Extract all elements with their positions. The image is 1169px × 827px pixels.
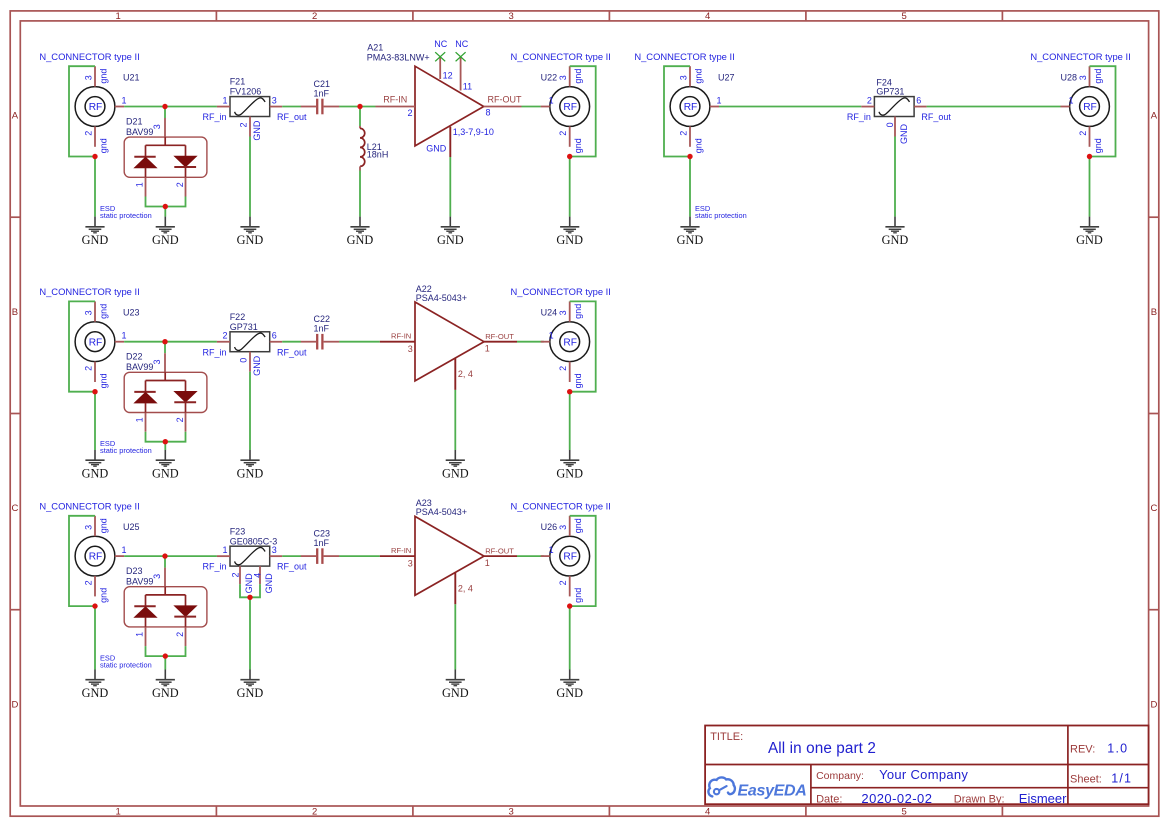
svg-text:PSA4-5043+: PSA4-5043+ xyxy=(416,293,467,303)
junction xyxy=(357,104,362,109)
frame row letters right xyxy=(1150,111,1157,711)
svg-text:U23: U23 xyxy=(123,308,140,318)
capacitor C23 1nF xyxy=(301,529,340,564)
svg-text:gnd: gnd xyxy=(98,138,108,153)
svg-text:RF-OUT: RF-OUT xyxy=(485,332,514,341)
svg-text:2: 2 xyxy=(222,331,227,341)
wire bus to L21 xyxy=(359,107,361,127)
junction xyxy=(247,595,252,600)
svg-text:1.0: 1.0 xyxy=(1107,741,1128,755)
svg-text:GND: GND xyxy=(237,233,264,247)
svg-text:RF: RF xyxy=(89,102,103,113)
svg-text:1: 1 xyxy=(135,182,145,187)
filter F22 GP731 xyxy=(202,312,307,376)
capacitor C22 1nF xyxy=(301,314,340,349)
wire U21 to F21 xyxy=(124,106,217,108)
svg-text:D: D xyxy=(1150,699,1157,710)
svg-text:FV1206: FV1206 xyxy=(230,87,262,97)
svg-text:N_CONNECTOR type II: N_CONNECTOR type II xyxy=(1030,51,1130,62)
svg-text:Your Company: Your Company xyxy=(879,767,968,782)
svg-text:RF: RF xyxy=(563,337,577,348)
svg-text:GND: GND xyxy=(152,233,179,247)
svg-text:RF: RF xyxy=(89,552,103,563)
svg-text:PMA3-83LNW+: PMA3-83LNW+ xyxy=(367,53,430,63)
svg-text:2: 2 xyxy=(867,95,872,105)
diode D23 BAV99 xyxy=(124,566,207,646)
svg-text:RF_out: RF_out xyxy=(921,112,951,122)
svg-text:RF-OUT: RF-OUT xyxy=(488,94,522,104)
svg-text:4: 4 xyxy=(253,573,263,578)
wire gnd wrap of U27 xyxy=(664,66,690,156)
connector U22 N_CONNECTOR xyxy=(511,51,611,153)
svg-text:1: 1 xyxy=(116,807,121,818)
svg-text:N_CONNECTOR type II: N_CONNECTOR type II xyxy=(511,51,611,62)
wire A23 gnd pin to ground xyxy=(454,604,456,669)
filter F21 FV1206 xyxy=(202,77,307,141)
svg-text:A21: A21 xyxy=(367,42,383,52)
svg-text:1nF: 1nF xyxy=(314,88,330,98)
svg-text:GND: GND xyxy=(437,233,464,247)
svg-text:8: 8 xyxy=(486,108,491,118)
wire L21 to ground xyxy=(359,171,361,217)
wire F21 to C21 xyxy=(282,106,301,108)
svg-text:3: 3 xyxy=(678,75,688,80)
svg-text:D: D xyxy=(11,699,18,710)
amplifier A23 PSA4-5043+ xyxy=(380,498,517,604)
svg-text:N_CONNECTOR type II: N_CONNECTOR type II xyxy=(39,501,139,512)
svg-text:2, 4: 2, 4 xyxy=(458,584,473,594)
svg-text:3: 3 xyxy=(152,124,162,129)
svg-text:1: 1 xyxy=(122,545,127,555)
svg-text:gnd: gnd xyxy=(573,138,583,153)
ground xyxy=(556,450,583,481)
wire gnd wrap of U22 xyxy=(570,66,596,156)
svg-text:U26: U26 xyxy=(541,522,558,532)
svg-text:gnd: gnd xyxy=(1093,69,1103,84)
svg-text:gnd: gnd xyxy=(98,373,108,388)
svg-text:2: 2 xyxy=(312,807,317,818)
ground xyxy=(82,450,109,481)
connector U23 N_CONNECTOR xyxy=(39,286,139,388)
svg-text:NC: NC xyxy=(455,39,468,49)
frame column numbers bottom xyxy=(116,807,907,818)
wire F22 pin 0 to ground xyxy=(249,372,251,450)
ground xyxy=(82,670,109,701)
wire U26 pin2 to ground xyxy=(569,606,571,669)
svg-text:RF_in: RF_in xyxy=(847,112,871,122)
svg-text:1/1: 1/1 xyxy=(1111,772,1132,786)
wire joining D22 pins 1,2 to ground xyxy=(146,432,186,442)
svg-text:GP731: GP731 xyxy=(230,322,258,332)
svg-text:1: 1 xyxy=(116,11,121,22)
svg-text:0: 0 xyxy=(238,358,248,363)
ground xyxy=(677,217,704,248)
svg-text:N_CONNECTOR type II: N_CONNECTOR type II xyxy=(634,51,734,62)
svg-text:RF: RF xyxy=(684,102,698,113)
svg-text:2: 2 xyxy=(558,366,568,371)
svg-text:RF-OUT: RF-OUT xyxy=(485,546,514,555)
svg-text:gnd: gnd xyxy=(693,138,703,153)
svg-text:RF-IN: RF-IN xyxy=(383,94,407,104)
wire C21 to A21 xyxy=(339,106,375,108)
filter F23 GE0805C-3 xyxy=(202,526,307,593)
svg-text:TITLE:: TITLE: xyxy=(710,731,743,743)
net label ESD static protection xyxy=(100,439,152,455)
svg-text:BAV99: BAV99 xyxy=(126,127,153,137)
svg-text:GND: GND xyxy=(252,355,262,376)
svg-text:BAV99: BAV99 xyxy=(126,576,153,586)
svg-text:RF_out: RF_out xyxy=(277,347,307,357)
svg-text:gnd: gnd xyxy=(573,304,583,319)
svg-text:RF: RF xyxy=(1083,102,1097,113)
ground xyxy=(556,670,583,701)
svg-text:C: C xyxy=(11,503,18,514)
svg-text:GND: GND xyxy=(426,144,447,154)
inductor L21 18nH xyxy=(360,126,388,171)
net label ESD static protection xyxy=(100,653,152,669)
svg-text:4: 4 xyxy=(705,11,710,22)
svg-text:3: 3 xyxy=(509,807,514,818)
svg-text:5: 5 xyxy=(902,11,907,22)
connector U24 N_CONNECTOR xyxy=(511,286,611,388)
ground xyxy=(347,217,374,248)
svg-text:GND: GND xyxy=(1076,233,1103,247)
svg-text:A: A xyxy=(12,111,19,122)
svg-text:U21: U21 xyxy=(123,73,140,83)
svg-text:GND: GND xyxy=(237,686,264,700)
svg-text:D22: D22 xyxy=(126,352,143,362)
svg-text:Drawn By:: Drawn By: xyxy=(954,793,1005,805)
svg-text:3: 3 xyxy=(83,310,93,315)
svg-text:F22: F22 xyxy=(230,312,246,322)
svg-text:GND: GND xyxy=(442,467,469,481)
svg-text:1,3-7,9-10: 1,3-7,9-10 xyxy=(453,127,494,137)
svg-text:gnd: gnd xyxy=(98,69,108,84)
svg-text:D23: D23 xyxy=(126,566,143,576)
diode D21 BAV99 xyxy=(124,117,207,197)
ground xyxy=(152,450,179,481)
svg-text:Eismeer: Eismeer xyxy=(1019,791,1067,806)
wire F24 pin 0 to ground xyxy=(894,137,896,217)
svg-text:GND: GND xyxy=(442,686,469,700)
svg-text:GND: GND xyxy=(152,467,179,481)
svg-text:Date:: Date: xyxy=(816,793,842,805)
svg-text:GND: GND xyxy=(237,467,264,481)
wire joining D21 pins 1,2 to ground xyxy=(146,197,186,207)
wire U25 pin2 to ground xyxy=(94,606,96,669)
junction xyxy=(567,603,572,608)
title block dividers xyxy=(705,726,1149,805)
svg-text:Sheet:: Sheet: xyxy=(1070,773,1102,785)
no-connect flag pin 11 xyxy=(455,39,468,62)
wire U23 to F22 xyxy=(124,341,217,343)
svg-text:RF-IN: RF-IN xyxy=(391,546,411,555)
svg-text:RF_in: RF_in xyxy=(202,347,226,357)
frame row letters left xyxy=(11,111,18,711)
svg-text:GND: GND xyxy=(82,467,109,481)
svg-text:1: 1 xyxy=(122,96,127,106)
junction xyxy=(163,653,168,658)
wire A22 to U24 xyxy=(517,341,544,343)
svg-text:1: 1 xyxy=(549,96,554,106)
svg-text:RF_out: RF_out xyxy=(277,562,307,572)
svg-text:11: 11 xyxy=(463,82,472,92)
svg-text:D21: D21 xyxy=(126,117,143,127)
svg-text:static protection: static protection xyxy=(100,660,152,669)
ground xyxy=(882,217,909,248)
svg-text:1: 1 xyxy=(549,545,554,555)
diode D22 BAV99 xyxy=(124,352,207,432)
svg-text:2: 2 xyxy=(407,108,412,118)
wire F21 pin 2 to ground xyxy=(249,137,251,217)
svg-text:2: 2 xyxy=(175,182,185,187)
svg-text:F21: F21 xyxy=(230,77,246,87)
wire gnd wrap of U25 xyxy=(69,516,95,606)
svg-text:1: 1 xyxy=(222,545,227,555)
junction xyxy=(92,154,97,159)
junction xyxy=(1087,154,1092,159)
svg-text:RF: RF xyxy=(563,552,577,563)
title block text Company xyxy=(816,767,968,782)
svg-text:2: 2 xyxy=(238,122,248,127)
svg-text:N_CONNECTOR type II: N_CONNECTOR type II xyxy=(39,286,139,297)
svg-text:F23: F23 xyxy=(230,526,246,536)
svg-text:1nF: 1nF xyxy=(314,324,330,334)
svg-text:RF: RF xyxy=(563,102,577,113)
svg-text:3: 3 xyxy=(83,525,93,530)
svg-text:EasyEDA: EasyEDA xyxy=(738,782,807,799)
amplifier A22 PSA4-5043+ xyxy=(380,284,517,390)
svg-text:GP731: GP731 xyxy=(876,87,904,97)
junction xyxy=(567,389,572,394)
svg-text:Company:: Company: xyxy=(816,770,864,782)
net label ESD static protection xyxy=(695,204,747,220)
wire U28 pin2 to ground xyxy=(1089,157,1091,217)
capacitor C21 1nF xyxy=(301,79,340,114)
wire from bus to D21 pin 3 xyxy=(164,107,166,119)
svg-text:1: 1 xyxy=(222,95,227,105)
title block text REV xyxy=(1070,741,1128,755)
wire U27 pin2 to ground xyxy=(689,157,691,217)
ground xyxy=(442,670,469,701)
svg-text:3: 3 xyxy=(408,559,413,569)
junction xyxy=(162,339,167,344)
wire C23 to A23 xyxy=(339,555,380,557)
svg-text:gnd: gnd xyxy=(1093,138,1103,153)
connector U27 N_CONNECTOR xyxy=(634,51,734,153)
svg-text:18nH: 18nH xyxy=(367,150,389,160)
wire U23 pin2 to ground xyxy=(94,392,96,450)
junction xyxy=(163,204,168,209)
wire gnd wrap of U23 xyxy=(69,301,95,391)
svg-text:1: 1 xyxy=(1068,96,1073,106)
svg-text:2: 2 xyxy=(175,632,185,637)
svg-text:GND: GND xyxy=(152,686,179,700)
wire F23 pins 2,4 to ground xyxy=(240,584,260,597)
amplifier A21 PMA3-83LNW+ xyxy=(367,42,522,157)
svg-text:GND: GND xyxy=(82,686,109,700)
wire U22 pin2 to ground xyxy=(569,157,571,217)
ground xyxy=(442,450,469,481)
junction xyxy=(162,553,167,558)
wire A21 to U22 xyxy=(522,106,541,108)
ground xyxy=(82,217,109,248)
svg-text:REV:: REV: xyxy=(1070,743,1095,755)
svg-text:GND: GND xyxy=(264,573,274,594)
svg-text:gnd: gnd xyxy=(98,518,108,533)
wire from bus to D23 pin 3 xyxy=(164,556,166,568)
filter F24 GP731 xyxy=(847,77,952,144)
svg-text:B: B xyxy=(1151,307,1157,318)
svg-text:GND: GND xyxy=(677,233,704,247)
wire gnd wrap of U26 xyxy=(570,516,596,606)
svg-text:gnd: gnd xyxy=(573,373,583,388)
frame row ticks left xyxy=(10,217,20,610)
junction xyxy=(92,389,97,394)
svg-text:1: 1 xyxy=(135,417,145,422)
svg-text:6: 6 xyxy=(272,331,277,341)
frame column numbers top xyxy=(116,11,907,22)
svg-text:GND: GND xyxy=(882,233,909,247)
svg-text:N_CONNECTOR type II: N_CONNECTOR type II xyxy=(39,51,139,62)
connector U25 N_CONNECTOR xyxy=(39,501,139,603)
title block text TITLE xyxy=(710,731,876,757)
junction xyxy=(163,439,168,444)
title block text Sheet xyxy=(1070,772,1132,786)
wire A23 to U26 xyxy=(517,555,544,557)
svg-text:2: 2 xyxy=(1078,131,1088,136)
wire F22 to C22 xyxy=(282,341,301,343)
svg-text:3: 3 xyxy=(558,525,568,530)
junction xyxy=(687,154,692,159)
svg-text:GND: GND xyxy=(556,686,583,700)
ground xyxy=(437,217,464,248)
svg-text:RF_in: RF_in xyxy=(202,112,226,122)
title block text Date xyxy=(816,791,932,806)
ground xyxy=(237,450,264,481)
svg-text:static protection: static protection xyxy=(695,211,747,220)
svg-text:B: B xyxy=(12,307,18,318)
svg-text:2: 2 xyxy=(678,131,688,136)
wire gnd wrap of U24 xyxy=(570,301,596,391)
svg-text:GND: GND xyxy=(252,120,262,141)
svg-text:2: 2 xyxy=(231,572,241,577)
svg-text:1nF: 1nF xyxy=(314,538,330,548)
svg-text:RF-IN: RF-IN xyxy=(391,332,411,341)
svg-text:N_CONNECTOR type II: N_CONNECTOR type II xyxy=(511,501,611,512)
svg-text:2020-02-02: 2020-02-02 xyxy=(861,791,932,806)
ground xyxy=(1076,217,1103,248)
svg-text:2: 2 xyxy=(558,580,568,585)
svg-text:static protection: static protection xyxy=(100,446,152,455)
svg-text:U27: U27 xyxy=(718,73,735,83)
svg-text:5: 5 xyxy=(902,807,907,818)
wire A22 gnd pin to ground xyxy=(454,390,456,450)
svg-text:3: 3 xyxy=(272,545,277,555)
svg-text:1: 1 xyxy=(485,558,490,568)
svg-text:gnd: gnd xyxy=(573,69,583,84)
svg-text:All in one part 2: All in one part 2 xyxy=(768,740,876,757)
title block text Drawn By xyxy=(954,791,1067,806)
junction xyxy=(567,154,572,159)
svg-text:2: 2 xyxy=(83,131,93,136)
wire U27 to F24 xyxy=(719,106,861,108)
frame column ticks bottom xyxy=(216,806,1002,816)
svg-text:gnd: gnd xyxy=(573,518,583,533)
svg-text:1: 1 xyxy=(549,331,554,341)
wire gnd wrap of U21 xyxy=(69,66,95,156)
svg-text:3: 3 xyxy=(152,359,162,364)
wire F24 to U28 xyxy=(927,106,1061,108)
svg-text:3: 3 xyxy=(272,95,277,105)
svg-text:U24: U24 xyxy=(541,308,558,318)
svg-text:3: 3 xyxy=(509,11,514,22)
junction xyxy=(162,104,167,109)
svg-text:1: 1 xyxy=(122,331,127,341)
svg-text:2: 2 xyxy=(83,580,93,585)
wire from bus to D22 pin 3 xyxy=(164,342,166,354)
svg-text:1: 1 xyxy=(135,632,145,637)
svg-text:2, 4: 2, 4 xyxy=(458,369,473,379)
EasyEDA logo xyxy=(708,777,806,799)
wire joining D23 pins 1,2 to ground xyxy=(146,646,186,656)
svg-text:3: 3 xyxy=(558,310,568,315)
svg-text:C: C xyxy=(1150,503,1157,514)
svg-text:U22: U22 xyxy=(541,73,558,83)
svg-text:BAV99: BAV99 xyxy=(126,362,153,372)
svg-text:12: 12 xyxy=(443,70,453,80)
svg-text:gnd: gnd xyxy=(98,304,108,319)
wire U25 to F23 xyxy=(124,555,217,557)
connector U28 N_CONNECTOR xyxy=(1030,51,1130,153)
frame column ticks top xyxy=(216,11,1002,21)
frame row ticks right xyxy=(1149,217,1159,610)
svg-text:GND: GND xyxy=(82,233,109,247)
no-connect flag pin 12 xyxy=(434,39,447,62)
svg-text:N_CONNECTOR type II: N_CONNECTOR type II xyxy=(511,286,611,297)
svg-text:1: 1 xyxy=(485,344,490,354)
svg-text:U25: U25 xyxy=(123,522,140,532)
svg-text:2: 2 xyxy=(558,131,568,136)
ground xyxy=(152,670,179,701)
svg-text:gnd: gnd xyxy=(98,588,108,603)
wire gnd wrap of U28 xyxy=(1090,66,1116,156)
wire U21 pin2 to ground xyxy=(94,157,96,217)
svg-text:A: A xyxy=(1151,111,1158,122)
connector U21 N_CONNECTOR xyxy=(39,51,139,153)
junction xyxy=(92,603,97,608)
svg-text:3: 3 xyxy=(1078,75,1088,80)
svg-text:GND: GND xyxy=(347,233,374,247)
ground xyxy=(556,217,583,248)
svg-text:GND: GND xyxy=(556,467,583,481)
wire A21 gnd pin to ground xyxy=(449,157,451,217)
svg-text:0: 0 xyxy=(885,122,895,127)
svg-text:RF_in: RF_in xyxy=(202,562,226,572)
svg-text:2: 2 xyxy=(83,366,93,371)
svg-text:GE0805C-3: GE0805C-3 xyxy=(230,536,278,546)
svg-text:gnd: gnd xyxy=(693,69,703,84)
svg-text:2: 2 xyxy=(312,11,317,22)
svg-text:3: 3 xyxy=(408,344,413,354)
svg-text:RF_out: RF_out xyxy=(277,112,307,122)
wire C22 to A22 xyxy=(339,341,380,343)
svg-text:RF: RF xyxy=(89,337,103,348)
svg-text:static protection: static protection xyxy=(100,211,152,220)
net label ESD static protection xyxy=(100,204,152,220)
svg-text:gnd: gnd xyxy=(573,588,583,603)
svg-text:GND: GND xyxy=(899,124,909,145)
